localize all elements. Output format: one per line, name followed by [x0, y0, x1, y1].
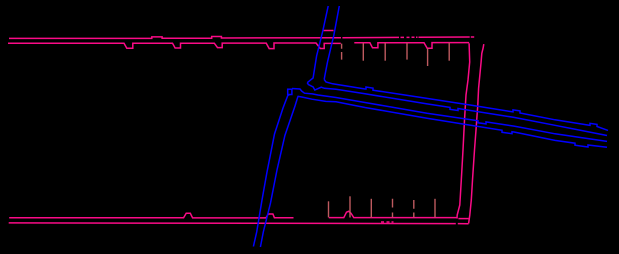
wire blue steep left lower	[253, 95, 289, 247]
tick below top line x428	[427, 48, 429, 66]
wire blue steep right upper	[324, 6, 339, 80]
wire bottom roadway upper line stub right of vertical	[458, 218, 468, 220]
wire blue steep left upper	[307, 6, 328, 83]
tick dashed above bottom line x413	[413, 200, 415, 218]
tick above bottom line x328	[328, 201, 330, 217]
wire right side left vertical line	[457, 43, 470, 218]
wire top roadway lower line right part	[354, 43, 469, 49]
wire top roadway upper line left part	[9, 37, 341, 39]
wire blue branch line 1 from right steep	[324, 80, 608, 131]
tick dashed above bottom line x392	[392, 199, 394, 218]
tick below top line x385	[384, 43, 386, 61]
wire magenta bar between blue lines at top	[324, 30, 334, 32]
wire blue branch line 2 from left steep	[307, 83, 607, 136]
wire blue steep right lower	[260, 96, 298, 247]
wire bottom roadway upper line right part	[329, 211, 457, 217]
tick above bottom line x371	[370, 199, 372, 218]
tick below top line x450	[448, 43, 450, 61]
tick below top line x407	[406, 43, 408, 60]
wire right side right vertical line	[469, 44, 484, 223]
tick dashed below top line x341	[341, 44, 343, 60]
wire blue branch line 4 from right lower steep	[298, 96, 608, 147]
wire top roadway upper line right part	[342, 36, 474, 39]
tick above bottom line x350	[349, 196, 351, 217]
tick above bottom line x435	[434, 199, 436, 218]
wire blue branch line 3 from junction box	[292, 89, 607, 142]
wire bottom roadway lower line dashes	[381, 221, 394, 223]
node junction box	[288, 89, 292, 94]
tick below top line x363	[362, 43, 364, 61]
wire bottom roadway lower line	[9, 222, 469, 225]
wire bottom roadway upper line left part	[9, 213, 293, 218]
wire top roadway lower line left part	[8, 43, 341, 49]
